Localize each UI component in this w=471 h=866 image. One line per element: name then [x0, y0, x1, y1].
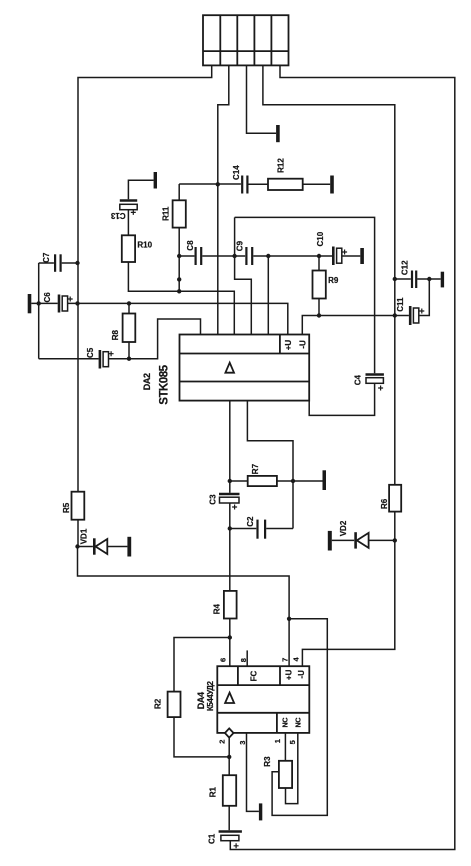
DA4 amplifier triangle	[225, 693, 234, 703]
svg-text:VD1: VD1	[79, 528, 88, 544]
capacitor C2	[230, 520, 293, 539]
svg-text:VD2: VD2	[339, 520, 348, 536]
svg-text:1: 1	[273, 739, 282, 743]
resistor R12	[268, 179, 303, 190]
DA2 amplifier triangle	[225, 363, 234, 373]
wire R11 top to C14	[179, 183, 241, 185]
wire R4 bottom to DA4 pin6	[229, 619, 231, 667]
ground C10	[360, 248, 364, 264]
ground connector pin3	[276, 125, 280, 142]
svg-text:+U: +U	[284, 340, 293, 351]
ground C13	[154, 172, 157, 189]
ground left supply bus	[28, 294, 32, 313]
diode VD1	[78, 538, 128, 554]
svg-text:К544УД2: К544УД2	[206, 681, 215, 712]
capacitor C6	[59, 295, 73, 313]
wire R12 to ground	[303, 183, 331, 185]
wire C4 bottom to DA2 output corner pin	[309, 384, 374, 416]
svg-text:C9: C9	[236, 240, 245, 251]
svg-text:R8: R8	[111, 330, 120, 341]
capacitor C11	[410, 306, 424, 325]
svg-text:C4: C4	[354, 375, 363, 386]
node junction dots	[216, 182, 220, 186]
svg-text:R5: R5	[62, 502, 71, 513]
resistor R1	[223, 775, 236, 806]
wire connector pin2 down to DA2 input pin	[218, 65, 229, 334]
capacitor C7	[39, 254, 78, 271]
ground VD2	[328, 531, 332, 551]
wire C9 to C10	[253, 255, 332, 257]
wire node C8C9 up to bootstrap line	[234, 217, 236, 256]
capacitor C13	[120, 201, 137, 215]
svg-text:C5: C5	[86, 347, 95, 358]
wire R2 bottom line	[174, 717, 229, 757]
ground R12	[330, 176, 334, 194]
op-amp DA4 box	[217, 666, 309, 733]
svg-text:C3: C3	[209, 494, 218, 505]
capacitor C8	[196, 247, 202, 265]
capacitor C12	[412, 271, 416, 289]
svg-text:C14: C14	[232, 165, 241, 180]
capacitor C9	[246, 247, 252, 265]
wire -U pin line to C11	[302, 316, 409, 335]
svg-text:-U: -U	[298, 340, 307, 349]
svg-text:R9: R9	[328, 276, 339, 285]
wire R2 top line	[174, 638, 230, 692]
svg-text:STK085: STK085	[159, 364, 171, 404]
wire VD1 node down to DA4 pin7	[78, 547, 290, 667]
wire ground to C6	[31, 302, 57, 304]
connector X1 block	[203, 15, 289, 65]
svg-text:DA2: DA2	[142, 373, 152, 390]
resistor R8	[123, 303, 136, 358]
wire bootstrap top line to C4	[235, 217, 375, 373]
resistor R2	[168, 692, 181, 718]
wire C11 right up to C12 right node	[419, 279, 430, 316]
svg-text:R7: R7	[251, 463, 260, 474]
wire C10 to ground	[342, 255, 361, 257]
wire connector pin5 outer right loop to C1 bottom	[230, 65, 454, 849]
svg-text:C1: C1	[207, 833, 216, 844]
svg-text:C12: C12	[401, 260, 410, 275]
svg-text:DA4: DA4	[196, 692, 206, 709]
resistor R4	[224, 591, 237, 619]
svg-text:C11: C11	[396, 297, 405, 312]
resistor R9	[313, 256, 326, 316]
wire C5 to DA2 input pin	[109, 319, 201, 359]
svg-text:NC: NC	[283, 717, 290, 727]
svg-text:+U: +U	[284, 669, 293, 680]
wire C14 to R12	[249, 183, 269, 185]
resistor R11	[173, 184, 186, 291]
wire C9 right node down to DA2 pin	[267, 256, 269, 335]
svg-text:FC: FC	[249, 671, 258, 682]
wire C5 line	[39, 358, 99, 360]
svg-text:R6: R6	[380, 498, 389, 509]
wire C8 to C9 node	[202, 255, 245, 257]
svg-text:C13: C13	[110, 211, 125, 220]
svg-text:R12: R12	[276, 158, 285, 173]
wire +U bus C6 to DA2 +U pin	[68, 303, 288, 334]
resistor R5	[72, 492, 85, 520]
resistor R6	[389, 485, 401, 512]
wire C8 line left	[179, 255, 194, 257]
svg-text:C2: C2	[246, 516, 255, 527]
wire DA2 bottom pin chain to R7 C3 R4 DA4 pin6	[229, 401, 231, 493]
ground VD1	[127, 537, 131, 557]
ground C12	[441, 272, 444, 288]
wire DA4 pin2 to R1	[228, 738, 230, 776]
wire R3 bottom to DA4 pin5	[286, 733, 298, 804]
capacitor C1	[219, 832, 242, 849]
resistor R7	[230, 476, 323, 486]
wire ground to C13 top	[128, 180, 153, 199]
capacitor C14	[242, 176, 247, 194]
ground R7	[323, 470, 327, 490]
wire DA4 pin3 to ground	[247, 733, 259, 812]
svg-text:C6: C6	[43, 292, 52, 303]
wire R5 to VD1 node	[77, 520, 79, 547]
capacitor C10	[333, 247, 347, 266]
svg-text:R3: R3	[263, 756, 272, 767]
svg-text:NC: NC	[296, 717, 303, 727]
svg-text:5: 5	[288, 740, 297, 744]
svg-text:C7: C7	[42, 252, 51, 263]
wire R3 wiper loop from +U node	[272, 619, 327, 816]
resistor R10	[122, 235, 135, 262]
diode VD2	[332, 532, 395, 548]
wire connector pin4 down right side to R6	[263, 65, 395, 484]
capacitor C3	[219, 494, 240, 510]
svg-text:-U: -U	[297, 670, 306, 679]
svg-text:R1: R1	[209, 787, 218, 798]
wire connector pin3 to ground	[247, 65, 277, 133]
wire connector pin1 to left rail down to R5	[78, 65, 212, 491]
wire left branch vertical C7 to C5	[38, 263, 40, 359]
wire DA2 second bottom pin to R7 right node	[247, 401, 293, 529]
wire R10 bottom to DA2 pin	[128, 262, 234, 335]
DA4 pin 8 stub	[246, 650, 248, 666]
capacitor C5	[100, 350, 114, 369]
svg-text:R11: R11	[162, 206, 171, 221]
wire C13 to R10	[127, 210, 129, 236]
svg-text:C8: C8	[186, 240, 195, 251]
wire C12 line	[395, 278, 441, 280]
DA4 output diamond on pin 2	[225, 728, 234, 737]
svg-text:6: 6	[219, 658, 228, 662]
svg-text:7: 7	[281, 658, 290, 662]
wire R1 to C1	[228, 806, 230, 830]
wire DA4 pin1 to R3	[284, 733, 286, 761]
svg-text:R10: R10	[137, 241, 152, 250]
svg-text:C10: C10	[316, 231, 325, 246]
wire R6 bottom to DA4 pin4	[302, 512, 394, 667]
wire node C8C9 down jog to DA2 pin	[235, 256, 252, 335]
ground DA4 pin3	[259, 803, 262, 820]
svg-text:R4: R4	[213, 604, 222, 615]
wire C3 bottom down through C2 node crossing to R4	[229, 503, 231, 591]
svg-text:3: 3	[238, 741, 247, 745]
resistor R3 trimmer	[279, 761, 292, 788]
svg-text:2: 2	[217, 740, 226, 744]
svg-text:R2: R2	[153, 698, 162, 709]
op-amp DA2 STK085 box	[180, 335, 310, 401]
capacitor C4	[366, 375, 384, 391]
